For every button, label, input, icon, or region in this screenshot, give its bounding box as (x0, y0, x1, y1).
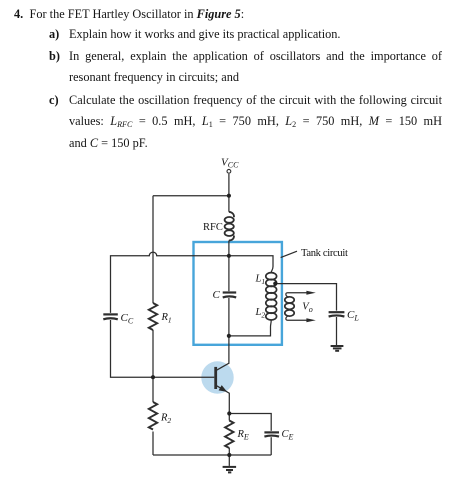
svg-text:RFC: RFC (203, 222, 223, 233)
svg-text:L2: L2 (255, 307, 266, 320)
svg-text:CL: CL (347, 309, 359, 323)
svg-text:RE: RE (237, 429, 249, 442)
svg-text:CC: CC (121, 312, 134, 326)
svg-text:C: C (213, 289, 221, 301)
svg-text:CE: CE (282, 429, 294, 442)
svg-text:VCC: VCC (221, 157, 239, 170)
svg-text:L1: L1 (255, 274, 266, 287)
svg-text:Vo: Vo (302, 302, 312, 315)
svg-text:R1: R1 (161, 312, 172, 325)
svg-text:R2: R2 (160, 413, 171, 426)
svg-text:Tank circuit: Tank circuit (301, 248, 348, 259)
